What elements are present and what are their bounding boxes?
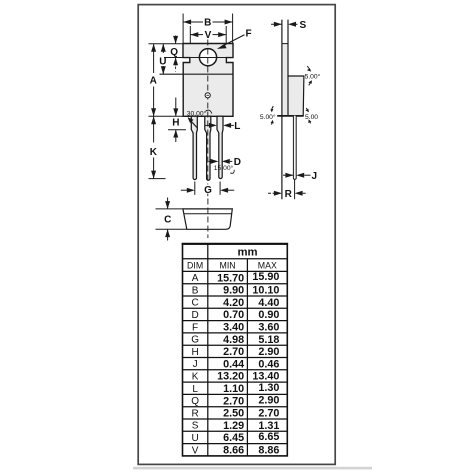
svg-text:8.86: 8.86 — [258, 445, 279, 457]
svg-text:H: H — [191, 347, 198, 358]
svg-text:0.44: 0.44 — [223, 358, 244, 370]
svg-text:1.10: 1.10 — [223, 383, 244, 395]
svg-text:J: J — [312, 171, 318, 182]
svg-text:13.40: 13.40 — [252, 371, 279, 383]
svg-text:3.60: 3.60 — [258, 322, 279, 334]
svg-text:4.40: 4.40 — [258, 297, 279, 309]
svg-text:15.00°: 15.00° — [214, 164, 234, 172]
svg-text:U: U — [159, 57, 166, 68]
svg-text:U: U — [191, 433, 198, 444]
svg-text:4.20: 4.20 — [223, 297, 244, 309]
svg-text:S: S — [192, 421, 199, 432]
svg-text:L: L — [234, 121, 240, 132]
svg-text:D: D — [191, 310, 198, 321]
svg-text:R: R — [191, 408, 198, 419]
svg-text:3.40: 3.40 — [223, 322, 244, 334]
svg-text:G: G — [204, 185, 212, 196]
svg-text:8.66: 8.66 — [223, 445, 244, 457]
svg-text:2.70: 2.70 — [223, 346, 244, 358]
svg-text:C: C — [191, 298, 198, 309]
svg-text:1.31: 1.31 — [258, 420, 279, 432]
svg-text:2.50: 2.50 — [223, 408, 244, 420]
svg-text:B: B — [192, 285, 199, 296]
svg-text:4.98: 4.98 — [223, 334, 244, 346]
svg-text:Q: Q — [170, 47, 178, 58]
svg-text:5.00: 5.00 — [305, 114, 318, 121]
svg-text:15.70: 15.70 — [217, 272, 244, 284]
svg-text:R: R — [285, 189, 293, 200]
svg-text:G: G — [191, 335, 199, 346]
svg-text:2.70: 2.70 — [223, 395, 244, 407]
svg-text:K: K — [192, 372, 199, 383]
svg-text:0.90: 0.90 — [258, 309, 279, 321]
svg-text:L: L — [192, 384, 198, 395]
svg-text:6.45: 6.45 — [223, 432, 244, 444]
svg-text:DIM: DIM — [187, 260, 203, 270]
svg-text:F: F — [246, 28, 252, 39]
svg-text:0.46: 0.46 — [258, 358, 279, 370]
svg-text:5.00°: 5.00° — [305, 73, 321, 81]
svg-text:V: V — [205, 30, 212, 41]
svg-text:0.70: 0.70 — [223, 309, 244, 321]
svg-text:15.90: 15.90 — [252, 271, 279, 283]
svg-text:D: D — [234, 157, 241, 168]
svg-text:1.30: 1.30 — [258, 382, 279, 394]
svg-text:J: J — [193, 359, 198, 370]
svg-text:30.00°: 30.00° — [187, 109, 207, 117]
svg-text:10.10: 10.10 — [252, 285, 279, 297]
svg-text:C: C — [164, 215, 171, 226]
svg-text:2.70: 2.70 — [258, 408, 279, 420]
svg-text:A: A — [150, 76, 157, 87]
svg-text:K: K — [150, 147, 158, 158]
svg-text:H: H — [172, 118, 179, 129]
svg-text:MAX: MAX — [258, 260, 277, 270]
svg-text:2.90: 2.90 — [258, 346, 279, 358]
svg-text:5.18: 5.18 — [258, 334, 279, 346]
svg-text:1.29: 1.29 — [223, 420, 244, 432]
svg-text:Q: Q — [191, 396, 199, 407]
svg-text:V: V — [192, 445, 199, 456]
svg-text:9.90: 9.90 — [223, 285, 244, 297]
svg-text:F: F — [192, 322, 198, 333]
svg-text:B: B — [204, 18, 211, 29]
svg-text:MIN: MIN — [220, 260, 236, 270]
svg-text:6.65: 6.65 — [258, 431, 279, 443]
svg-text:5.00°: 5.00° — [260, 113, 276, 121]
svg-text:S: S — [299, 20, 306, 31]
svg-text:2.90: 2.90 — [258, 394, 279, 406]
svg-text:A: A — [192, 273, 199, 284]
svg-text:13.20: 13.20 — [217, 371, 244, 383]
svg-text:mm: mm — [237, 246, 257, 258]
